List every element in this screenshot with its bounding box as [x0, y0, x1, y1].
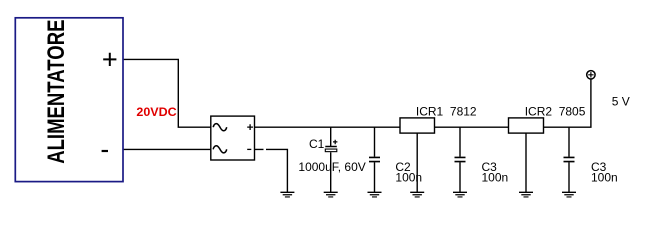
svg-text:ICR2 7805: ICR2 7805: [525, 105, 586, 119]
svg-text:5 V: 5 V: [612, 95, 630, 109]
svg-text:100n: 100n: [482, 171, 509, 185]
svg-text:1000uF, 60V: 1000uF, 60V: [298, 160, 365, 174]
svg-text:ICR1 7812: ICR1 7812: [416, 105, 477, 119]
svg-text:100n: 100n: [395, 171, 422, 185]
svg-text:100n: 100n: [591, 171, 618, 185]
svg-text:C1: C1: [309, 137, 325, 151]
svg-text:20VDC: 20VDC: [136, 105, 176, 119]
svg-text:ALIMENTATORE: ALIMENTATORE: [43, 20, 70, 164]
